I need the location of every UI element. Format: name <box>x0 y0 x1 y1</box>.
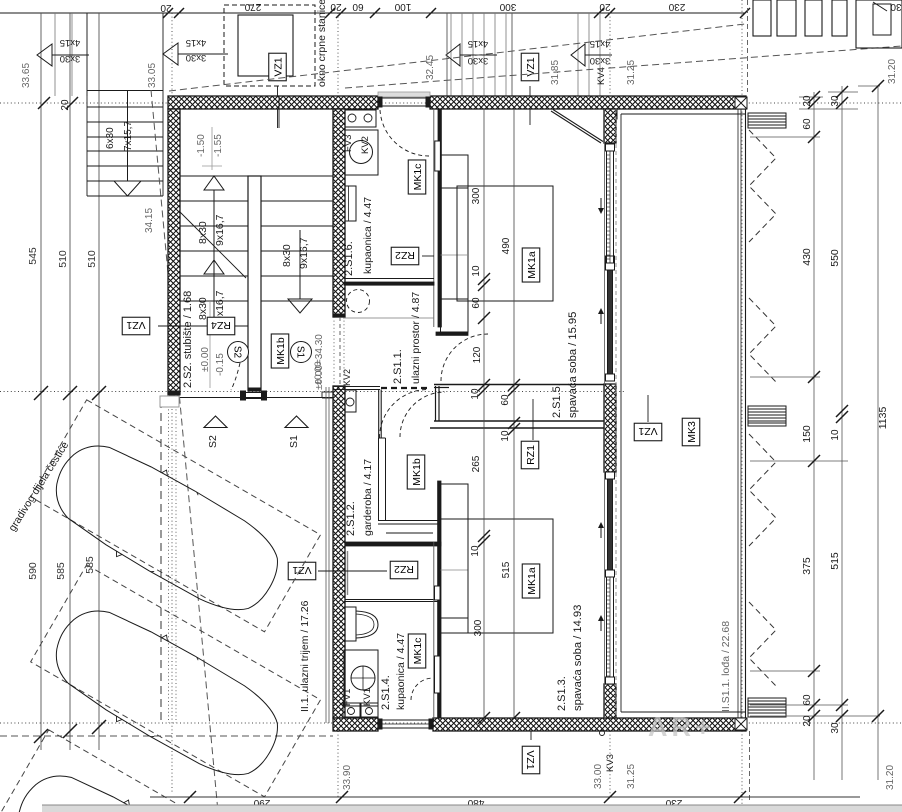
svg-text:60: 60 <box>802 118 813 130</box>
svg-text:32.45: 32.45 <box>425 55 436 80</box>
svg-text:3x30: 3x30 <box>60 53 81 64</box>
chain A tick <box>478 379 490 391</box>
svg-text:4x15: 4x15 <box>60 37 81 48</box>
west stair walk line + down arrow <box>127 91 129 182</box>
shaft north wall thick <box>345 542 441 546</box>
stair treads left flight <box>180 175 248 177</box>
bathroom2 door arc <box>411 678 433 700</box>
MK3 label <box>682 418 700 446</box>
dashed boundary line steep <box>151 90 218 812</box>
svg-text:8x30: 8x30 <box>281 244 293 267</box>
svg-text:2.S2. stubište / 1.68: 2.S2. stubište / 1.68 <box>182 291 194 388</box>
left dim line 545 <box>40 13 42 750</box>
VZ1 label porch <box>288 562 316 580</box>
tick on axis A <box>38 97 50 109</box>
loggia inner line left <box>620 114 622 712</box>
dim tick <box>605 8 615 18</box>
tick on axis B <box>34 386 48 400</box>
car 2 <box>38 590 295 796</box>
right chain R3 <box>877 86 879 780</box>
corridor west jamb <box>435 386 437 421</box>
VZ1 label top <box>269 53 287 81</box>
okno crpne stanice dashed box <box>224 5 315 86</box>
svg-text:20: 20 <box>60 99 71 111</box>
svg-text:MK1a: MK1a <box>526 251 538 279</box>
window 2 insulation ticks <box>609 577 611 684</box>
level mark line <box>211 127 213 170</box>
window 1 slide arrow down <box>600 198 602 211</box>
stair up arrow 1 <box>213 190 215 276</box>
svg-text:kupaonica / 4.47: kupaonica / 4.47 <box>362 197 374 274</box>
zigzag screen 4 <box>749 602 776 686</box>
ext line y671 <box>750 670 820 672</box>
svg-text:33.05: 33.05 <box>147 63 158 88</box>
svg-text:MK1a: MK1a <box>526 567 538 595</box>
stair A arrow <box>460 54 497 56</box>
exterior wall top-left segment <box>168 96 378 109</box>
svg-text:585: 585 <box>84 556 96 574</box>
R3 tick <box>872 80 884 92</box>
stair east wall upper <box>333 109 345 317</box>
svg-text:60: 60 <box>471 297 482 309</box>
RZ2 label shaft <box>390 561 418 579</box>
left dim line 510a <box>69 13 71 750</box>
garderoba south wall <box>378 520 441 522</box>
S2 section circle <box>228 342 249 363</box>
bed bedroom2 <box>468 519 553 633</box>
svg-text:S1: S1 <box>294 346 305 359</box>
bedroom1 balcony door leaf <box>551 111 601 143</box>
bathroom2 upper door panel <box>435 586 441 600</box>
R1 tick <box>808 710 820 722</box>
svg-text:10: 10 <box>471 265 482 277</box>
porch dotted lines <box>168 395 170 723</box>
MK1b label hall <box>407 455 425 489</box>
shaft south wall <box>345 599 441 601</box>
bathroom window threshold in bottom wall <box>378 719 433 721</box>
hall dashed circle (shaft) <box>347 290 370 313</box>
svg-text:9x16,7: 9x16,7 <box>214 214 226 246</box>
svg-text:300: 300 <box>473 619 484 636</box>
window band pier top <box>604 109 616 143</box>
svg-text:60: 60 <box>802 694 813 706</box>
chain A tick <box>478 712 490 724</box>
svg-text:550: 550 <box>829 249 841 267</box>
window 2 upper sash (glazed leaf) <box>608 477 613 577</box>
loggia east wall lines <box>737 97 739 731</box>
svg-text:VZ1: VZ1 <box>272 57 284 76</box>
window 1 insulation ticks <box>609 144 611 263</box>
closet strip bedroom1 <box>441 155 469 332</box>
window 2 lower sash <box>607 577 614 684</box>
radiator <box>345 186 356 221</box>
svg-text:150: 150 <box>801 425 813 443</box>
svg-text:545: 545 <box>27 247 39 265</box>
exterior finish line west <box>325 387 327 723</box>
chain B tick <box>508 417 520 429</box>
vent grille bottom <box>748 698 786 717</box>
svg-text:II.S1.1. lođa / 22.68: II.S1.1. lođa / 22.68 <box>720 621 732 712</box>
inner chain B <box>513 109 515 718</box>
top dimension chain line <box>0 12 745 14</box>
axis line C (y=723) <box>0 722 902 724</box>
bathroom2 east wall (below bedroom2 door) <box>438 481 441 718</box>
loggia inner line bottom <box>621 711 746 713</box>
tick on axis B <box>92 386 106 400</box>
okno inner box <box>238 15 293 76</box>
garderoba door swing arc <box>380 390 429 439</box>
svg-text:MK1b: MK1b <box>275 337 287 365</box>
radiator RZ2 niche in wall <box>435 141 441 171</box>
svg-text:10: 10 <box>500 430 511 442</box>
svg-text:20: 20 <box>160 2 172 13</box>
VZ1 label bottom <box>522 746 540 774</box>
stair marker 2 arrow <box>178 53 228 55</box>
svg-text:3x30: 3x30 <box>186 52 207 63</box>
zigzag screen 1 <box>749 130 776 242</box>
R2 tick <box>836 86 848 98</box>
svg-text:±0.00: ±0.00 <box>200 347 211 372</box>
window band inner face line <box>604 109 606 718</box>
svg-text:spavaća soba / 15.95: spavaća soba / 15.95 <box>567 312 579 418</box>
svg-text:31.25: 31.25 <box>626 764 637 789</box>
chain A tick <box>478 384 490 396</box>
interior wall hall/bedroom x438 <box>438 109 441 327</box>
vertical sep x512 <box>511 13 513 96</box>
svg-text:33.00: 33.00 <box>593 764 604 789</box>
R1 tick <box>808 455 820 467</box>
car 1 <box>38 425 295 631</box>
bedroom2 door swing arc <box>400 392 445 437</box>
chain B tick <box>508 423 520 435</box>
axis vertical x=610 <box>609 13 611 96</box>
svg-text:430: 430 <box>801 248 813 266</box>
svg-text:2.S1.4.: 2.S1.4. <box>380 675 392 710</box>
external stair treads B <box>577 13 579 96</box>
svg-text:2.S1.6.: 2.S1.6. <box>343 241 355 276</box>
VZ1-RZ4 leader <box>158 325 205 327</box>
VZ1 label loggia <box>634 423 662 441</box>
RZ1 label <box>521 441 539 469</box>
fragment bars <box>753 0 771 36</box>
gray lintel over top window <box>378 92 430 97</box>
stair threshold <box>245 392 262 394</box>
window band outer dashed line <box>615 109 617 718</box>
svg-text:9x16,7: 9x16,7 <box>298 237 310 269</box>
svg-text:S2: S2 <box>207 435 219 448</box>
parking stall 2 dashed <box>31 565 321 797</box>
svg-text:RZ2: RZ2 <box>395 249 415 261</box>
svg-text:20: 20 <box>330 1 342 12</box>
axis line A (y=103) <box>0 102 902 104</box>
MK1a label 2 <box>522 564 540 598</box>
svg-text:KV2: KV2 <box>342 369 352 386</box>
tick on axis B <box>63 386 77 400</box>
bottom wall main <box>433 718 746 731</box>
washbasin counter 2 <box>344 650 378 706</box>
R2 tick <box>836 405 848 417</box>
west wall lower <box>333 386 345 718</box>
tick on axis C <box>92 720 106 734</box>
ext line y705 <box>750 704 848 706</box>
R1 tick <box>808 131 820 143</box>
ext line y109 <box>799 108 858 110</box>
tick on axis C <box>34 729 48 743</box>
R2 tick <box>836 699 848 711</box>
MK1b label stair <box>271 334 289 368</box>
dim tick <box>740 8 750 18</box>
svg-text:490: 490 <box>501 237 512 254</box>
garderoba east wall <box>378 438 380 520</box>
svg-text:120: 120 <box>472 346 483 363</box>
svg-text:4x15: 4x15 <box>468 38 489 49</box>
svg-text:AR+: AR+ <box>648 712 715 742</box>
level mark cross <box>202 165 222 167</box>
R2 tick <box>836 97 848 109</box>
R1 tick <box>808 97 820 109</box>
washer squares <box>343 703 360 717</box>
svg-text:-1.50: -1.50 <box>196 134 207 157</box>
bottom cut-off drawing band <box>42 805 902 812</box>
WC cistern <box>345 607 356 641</box>
svg-text:375: 375 <box>801 557 813 575</box>
ext line y461 <box>750 460 848 462</box>
svg-text:RZ4: RZ4 <box>211 319 231 331</box>
stair up arrow 2 <box>213 274 215 330</box>
porch top edge line <box>180 397 333 399</box>
svg-text:20: 20 <box>802 95 813 107</box>
VZ1 bottom leader <box>530 731 532 740</box>
dashed sight line 2 <box>345 46 902 88</box>
S2 section dashed arc <box>231 363 240 390</box>
RZ2 leader <box>422 255 434 257</box>
S1 section circle <box>291 342 312 363</box>
tick on axis C <box>63 724 77 738</box>
stair down arrow right flight <box>299 230 301 299</box>
window 1 lower sash (glazed leaf) <box>608 263 613 380</box>
chain A tick <box>478 535 490 547</box>
wall end cap <box>333 314 345 317</box>
svg-text:31.25: 31.25 <box>626 60 637 85</box>
corridor south wall line 2 <box>430 427 604 429</box>
loggia inner line top <box>621 113 746 115</box>
shaft gray line <box>347 551 349 595</box>
window band pier middle <box>604 384 616 472</box>
svg-text:590: 590 <box>27 562 39 580</box>
axis line B (y=391.5) <box>0 391 625 393</box>
fragment big rect <box>856 0 902 48</box>
stair diagonal cut line <box>180 212 246 278</box>
window band pier bottom <box>604 684 616 718</box>
RZ1 leader <box>532 399 534 440</box>
washbasin counter <box>345 130 378 175</box>
label MK1c top <box>408 160 426 194</box>
stair stringer wall <box>248 176 261 391</box>
svg-text:2.S1.5.: 2.S1.5. <box>551 383 563 418</box>
dim tick <box>325 8 335 18</box>
svg-text:MK3: MK3 <box>686 421 698 443</box>
window 1 slide arrow up <box>600 311 602 324</box>
chain B tick <box>508 379 520 391</box>
dim tick <box>336 8 346 18</box>
svg-text:33.65: 33.65 <box>21 63 32 88</box>
SE corner column <box>735 718 747 730</box>
svg-text:31.20: 31.20 <box>885 765 896 790</box>
garderoba north wall <box>333 386 380 388</box>
svg-text:30: 30 <box>830 722 841 734</box>
svg-text:±0.00: ±0.00 <box>313 361 324 385</box>
svg-text:spavaća soba / 14.93: spavaća soba / 14.93 <box>572 605 584 711</box>
chain B tick <box>508 712 520 724</box>
hall niche line <box>343 317 434 319</box>
svg-text:3x30: 3x30 <box>590 55 611 66</box>
RZ4 label <box>207 317 235 335</box>
stair treads right flight <box>261 175 333 177</box>
closet strip lines hall south <box>386 532 433 534</box>
svg-text:RZ2: RZ2 <box>394 563 414 575</box>
window 1 frame upper sash <box>607 144 614 263</box>
svg-text:2.S1.2.: 2.S1.2. <box>345 501 357 536</box>
dashed line y736 <box>0 735 333 737</box>
svg-text:kupaonica / 4.47: kupaonica / 4.47 <box>395 633 407 710</box>
bathroom2 sliding door panel <box>435 656 441 693</box>
fragment diagonal <box>873 2 887 11</box>
svg-text:MK1c: MK1c <box>412 638 424 665</box>
R3 tick <box>872 710 884 722</box>
dim tick <box>174 8 184 18</box>
ext line y716 <box>750 715 880 717</box>
VZ1 leader <box>529 86 531 125</box>
garderoba door leaf <box>378 390 380 439</box>
dim tick <box>370 8 380 18</box>
vent grille top <box>748 113 786 128</box>
right chain R1 <box>813 92 815 780</box>
svg-text:MK1c: MK1c <box>412 164 424 191</box>
svg-text:585: 585 <box>55 562 67 580</box>
top window door arc <box>380 110 429 156</box>
svg-text:34.15: 34.15 <box>144 208 155 233</box>
R2 tick <box>836 411 848 423</box>
inner chain A <box>483 109 485 718</box>
ext line y86 <box>858 85 880 87</box>
dashed sight line 1 <box>169 24 745 91</box>
svg-text:270: 270 <box>244 1 261 12</box>
R1 tick <box>808 371 820 383</box>
svg-text:8x30: 8x30 <box>197 297 209 320</box>
zigzag screen 2 <box>749 298 776 382</box>
S1 triangle <box>285 416 308 428</box>
svg-text:10: 10 <box>830 429 841 441</box>
svg-text:10: 10 <box>470 545 481 557</box>
svg-text:KV4: KV4 <box>596 67 607 85</box>
VZ1 porch leader <box>318 570 364 572</box>
west stair treads <box>87 106 163 108</box>
vertical sep x447 <box>446 13 448 96</box>
external stair treads top-left <box>54 13 56 96</box>
garderoba sliding door dashed <box>381 387 431 389</box>
svg-text:31.20: 31.20 <box>887 59 898 84</box>
svg-text:3x30: 3x30 <box>468 55 489 66</box>
dim tick <box>163 8 173 18</box>
svg-text:300: 300 <box>499 1 516 12</box>
gray level line <box>209 302 211 388</box>
svg-text:VZ1: VZ1 <box>292 564 311 576</box>
svg-text:230: 230 <box>668 1 685 12</box>
chain A tick <box>478 273 490 285</box>
bottom chain line <box>150 796 860 798</box>
svg-text:-0.15: -0.15 <box>215 353 226 376</box>
dim tick <box>594 8 604 18</box>
svg-text:1135: 1135 <box>877 407 889 430</box>
svg-text:ulazni prostor / 4.87: ulazni prostor / 4.87 <box>410 292 422 384</box>
svg-text:MK1b: MK1b <box>411 458 423 486</box>
right chain R2 <box>841 86 843 780</box>
stair B arrow <box>585 54 612 56</box>
VZ1 label top right <box>521 53 539 81</box>
dim tick <box>426 8 436 18</box>
dashed line below SE corner <box>749 731 751 800</box>
chain A tick <box>478 530 490 542</box>
VZ1 loggia leader <box>647 395 649 422</box>
ext line y97 <box>799 96 823 98</box>
axis vertical x=172 <box>171 13 173 793</box>
KV3 circle <box>600 731 605 736</box>
stair arrow left <box>52 54 89 56</box>
R1 tick <box>808 665 820 677</box>
svg-text:-1.55: -1.55 <box>213 134 224 157</box>
external stair treads A <box>450 13 452 96</box>
bottom tick <box>734 791 746 803</box>
svg-text:60: 60 <box>500 394 511 406</box>
svg-text:60: 60 <box>352 1 364 12</box>
chain A tick <box>478 312 490 324</box>
washbasin bowl 2 <box>351 666 375 690</box>
bottom tick <box>336 791 348 803</box>
left dim line 510b <box>98 13 100 750</box>
R2 tick <box>836 710 848 722</box>
svg-text:7x15,7: 7x15,7 <box>123 121 134 151</box>
svg-text:515: 515 <box>501 561 512 578</box>
VZ1 landing leader <box>278 96 280 128</box>
porch column <box>160 396 179 407</box>
svg-text:S2: S2 <box>231 346 242 359</box>
bedroom1 wall stub <box>436 332 468 335</box>
svg-text:265: 265 <box>471 455 482 472</box>
shaft radiator line <box>345 570 364 572</box>
bed bedroom1 <box>457 186 553 301</box>
svg-text:4x15: 4x15 <box>186 37 207 48</box>
chain B tick <box>508 384 520 396</box>
WC bowl <box>356 611 378 638</box>
bottom tick <box>184 791 196 803</box>
opening dotted lines (KV2 niche) <box>333 317 335 386</box>
svg-text:S1: S1 <box>288 435 300 448</box>
window 2 slide arrow <box>600 525 602 538</box>
block at window band top <box>611 109 617 119</box>
MK1a label 1 <box>522 248 540 282</box>
washer counter top <box>345 110 376 127</box>
car 3 partial <box>0 755 257 812</box>
tick on axis A <box>66 97 78 109</box>
vent grille middle <box>748 406 786 426</box>
chain A tick <box>478 279 490 291</box>
parking stall 1 dashed <box>31 400 321 632</box>
parking stall 3 dashed <box>0 730 282 812</box>
MK1c label 2 <box>408 634 426 668</box>
svg-text:20: 20 <box>802 715 813 727</box>
svg-text:RZ1: RZ1 <box>525 445 537 465</box>
window 2 slide arrow up <box>600 618 602 631</box>
